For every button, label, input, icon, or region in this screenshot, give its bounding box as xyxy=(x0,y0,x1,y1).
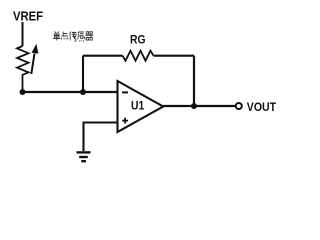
感 xyxy=(78,32,86,42)
svg-text:VREF: VREF xyxy=(13,9,43,24)
wire non-inverting input xyxy=(84,123,118,152)
单 xyxy=(53,32,60,41)
pin - (inverting) xyxy=(122,91,128,93)
svg-text:VOUT: VOUT xyxy=(247,100,277,114)
wire feedback right vertical xyxy=(193,56,195,106)
wire VREF lead to sensor xyxy=(22,22,24,46)
node VOUT terminal xyxy=(236,103,242,109)
resistor RG xyxy=(123,51,154,61)
pin + (non-inverting) xyxy=(122,118,128,124)
wire feedback left vertical xyxy=(82,56,84,92)
op-amp U1 xyxy=(118,81,164,132)
node output junction dot xyxy=(191,103,197,109)
node junction dot feedback tap xyxy=(80,89,86,95)
wire feedback top left segment xyxy=(83,55,123,57)
wire output xyxy=(163,105,235,107)
传 xyxy=(70,32,77,42)
resistor sensor (variable, 单点传感器) xyxy=(17,44,38,92)
wire feedback top right segment xyxy=(154,55,195,57)
svg-text:U1: U1 xyxy=(131,99,144,113)
点 xyxy=(61,32,68,40)
ground xyxy=(77,152,91,161)
器 xyxy=(86,32,94,40)
svg-text:RG: RG xyxy=(130,33,146,46)
wire main line (inverting input net) xyxy=(23,91,118,93)
node junction dot at sensor bottom xyxy=(20,89,26,95)
label 单点传感器 (sensor annotation, drawn glyphs) xyxy=(53,32,93,42)
